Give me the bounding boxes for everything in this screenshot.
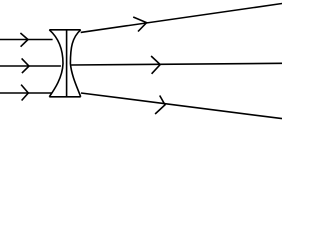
arrowhead on incident ray 1 <box>20 33 28 47</box>
incident ray 3 (bottom, horizontal) <box>0 92 52 94</box>
refracted ray 2 (middle, along axis) <box>71 63 282 65</box>
diverging lens: left concave surface <box>49 30 63 97</box>
diverging lens: central axis line <box>66 30 68 97</box>
incident ray 1 (top, horizontal) <box>0 39 53 41</box>
diverging lens: top edge <box>49 29 80 31</box>
refracted ray 1 (top, diverging upward) <box>81 4 282 33</box>
arrowhead on refracted ray 3 <box>155 96 165 115</box>
arrowhead on refracted ray 1 <box>133 17 146 32</box>
diverging lens: bottom edge <box>49 96 80 98</box>
refracted ray 3 (bottom, diverging downward) <box>81 93 282 119</box>
arrowhead on incident ray 3 <box>21 85 28 101</box>
incident ray 2 (middle, horizontal on axis) <box>0 65 61 67</box>
arrowhead on refracted ray 2 <box>151 56 160 74</box>
diverging lens: right concave surface <box>70 30 80 97</box>
arrowhead on incident ray 2 <box>22 58 29 73</box>
